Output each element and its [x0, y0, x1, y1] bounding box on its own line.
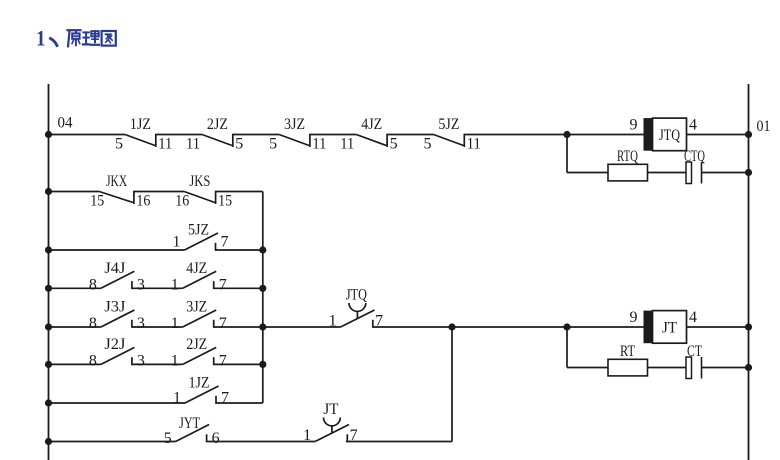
wire: left rail to JYT [49, 441, 176, 443]
wire: to RT [567, 367, 608, 369]
junction on left rail [45, 361, 52, 368]
junction on left rail [45, 285, 52, 292]
junction on right rail [745, 169, 752, 176]
svg-text:01: 01 [757, 118, 771, 135]
wire: left rail to 1JZ contact [49, 402, 186, 404]
junction to RT-CT branch [563, 323, 570, 330]
right rail (vertical bus) [748, 84, 750, 460]
svg-text:1: 1 [329, 313, 337, 330]
page title "1、原理图" [36, 26, 116, 51]
wire: J4J to 4JZ [132, 287, 183, 289]
wire: RT to CT [648, 367, 687, 369]
time-delay contact JT (pins 1-7) [303, 401, 358, 444]
svg-text:CTQ: CTQ [684, 148, 705, 165]
contact J3J (pins 8-3) [89, 299, 145, 332]
wire: left rail to 1JZ [49, 134, 126, 136]
svg-text:1: 1 [171, 352, 179, 369]
svg-text:3: 3 [137, 315, 145, 332]
svg-text:04: 04 [58, 115, 73, 132]
wire: 5JZ to RC junction [464, 134, 567, 136]
svg-text:3JZ: 3JZ [284, 116, 305, 133]
junction on mid bus [259, 323, 266, 330]
wire: JT coil to right rail [687, 326, 749, 328]
svg-text:11: 11 [467, 136, 481, 153]
relay coil JT (pins 9-4) [630, 309, 698, 343]
svg-text:5: 5 [115, 136, 123, 153]
svg-text:JT: JT [323, 401, 338, 418]
junction on left rail [45, 188, 52, 195]
svg-text:2JZ: 2JZ [186, 336, 207, 353]
junction on left rail [45, 246, 52, 253]
contact 3JZ (pins 5-11) [269, 116, 326, 153]
svg-text:6: 6 [212, 430, 220, 447]
svg-text:15: 15 [90, 193, 104, 210]
junction to RTQ-CTQ branch [563, 131, 570, 138]
svg-text:RT: RT [620, 343, 635, 360]
svg-text:8: 8 [89, 315, 97, 332]
svg-text:4: 4 [689, 309, 697, 326]
junction on mid bus [259, 361, 266, 368]
wire: 4JZ to 5JZ [387, 134, 433, 136]
contact 1JZ (pins 5-11) [115, 116, 172, 153]
wire: 3JZ to mid bus [214, 326, 263, 328]
svg-text:5: 5 [164, 430, 172, 447]
wire: JKS to mid bus [216, 191, 263, 193]
node 04 junction [45, 131, 52, 138]
wire: 3JZ to 4JZ [310, 134, 356, 136]
wire: JYT to JT contact [207, 441, 316, 443]
wire: RTQ to CTQ [648, 172, 687, 174]
svg-text:11: 11 [312, 136, 326, 153]
contact JYT (pins 5-6) [164, 415, 220, 447]
svg-text:5JZ: 5JZ [438, 116, 459, 133]
wire: drop to RT branch [566, 327, 568, 368]
svg-text:1: 1 [303, 427, 311, 444]
junction on mid bus [259, 285, 266, 292]
wire: left rail to J4J [49, 287, 101, 289]
wire: 2JZ to 3JZ [233, 134, 279, 136]
svg-text:J4J: J4J [104, 260, 125, 277]
wire: 1JZ to 2JZ [156, 134, 202, 136]
wire: to RTQ [567, 172, 608, 174]
junction on left rail [45, 438, 52, 445]
wire: JT contact to riser corner [346, 441, 452, 443]
svg-text:8: 8 [89, 276, 97, 293]
svg-text:JKS: JKS [189, 173, 210, 190]
mid bus (vertical) [262, 192, 264, 404]
svg-text:9: 9 [630, 117, 638, 134]
contact 2JZ (pins 1-7) [171, 336, 227, 369]
svg-text:JYT: JYT [179, 415, 200, 432]
svg-text:7: 7 [219, 352, 227, 369]
contact J2J (pins 8-3) [89, 336, 145, 369]
svg-text:1: 1 [171, 315, 179, 332]
wire: left rail to J3J [49, 326, 101, 328]
svg-text:5: 5 [390, 136, 398, 153]
junction on right rail [745, 364, 752, 371]
contact 3JZ (pins 1-7) [171, 299, 227, 332]
time-delay contact JTQ (pins 1-7) [329, 287, 384, 330]
relay coil JTQ (pins 9-4) [630, 117, 698, 151]
wire: JTQ contact to junction [373, 326, 452, 328]
wire: JTQ coil to right rail [687, 134, 749, 136]
svg-text:9: 9 [630, 309, 638, 326]
junction on left rail [45, 323, 52, 330]
svg-text:7: 7 [221, 234, 229, 251]
svg-text:7: 7 [219, 276, 227, 293]
svg-text:1: 1 [173, 390, 181, 407]
wire: CT to right rail [702, 367, 749, 369]
wire: junction to JTQ coil [567, 134, 644, 136]
wire: CTQ to right rail [702, 172, 749, 174]
contact J4J (pins 8-3) [89, 260, 145, 293]
junction on left rail [45, 399, 52, 406]
svg-text:3JZ: 3JZ [186, 299, 207, 316]
wire: JKX to JKS [134, 191, 184, 193]
left rail (vertical bus) [48, 84, 50, 460]
svg-text:4JZ: 4JZ [186, 260, 207, 277]
svg-text:JKX: JKX [106, 173, 127, 190]
junction on right rail (01) [745, 131, 752, 138]
junction on right rail [745, 323, 752, 330]
svg-text:JTQ: JTQ [346, 287, 367, 304]
svg-text:1JZ: 1JZ [130, 116, 151, 133]
svg-text:11: 11 [186, 136, 200, 153]
svg-text:2JZ: 2JZ [207, 116, 228, 133]
svg-text:4JZ: 4JZ [361, 116, 382, 133]
contact 2JZ (pins 11-5) [186, 116, 243, 153]
wire: drop to RTQ branch [566, 135, 568, 173]
svg-text:1: 1 [173, 234, 181, 251]
svg-text:8: 8 [89, 352, 97, 369]
svg-text:4: 4 [689, 117, 697, 134]
wire: junction to JT coil [567, 326, 644, 328]
svg-text:1JZ: 1JZ [189, 375, 210, 392]
wire: left rail to 5JZ contact [49, 249, 185, 251]
wire: junction to junction [452, 326, 567, 328]
wire: mid bus to JTQ contact [263, 326, 341, 328]
junction to bottom row riser [448, 323, 455, 330]
wire: left rail to J2J [49, 363, 101, 365]
wire: 1JZ to mid bus corner [216, 402, 263, 404]
svg-text:7: 7 [221, 390, 229, 407]
svg-text:CT: CT [687, 343, 702, 360]
svg-text:JT: JT [662, 320, 677, 337]
wire: J3J to 3JZ [132, 326, 183, 328]
svg-text:J3J: J3J [104, 299, 125, 316]
wire: J2J to 2JZ [132, 363, 183, 365]
svg-text:5: 5 [424, 136, 432, 153]
contact 4JZ (pins 1-7) [171, 260, 227, 293]
svg-text:3: 3 [137, 276, 145, 293]
svg-text:RTQ: RTQ [617, 148, 638, 165]
svg-text:15: 15 [218, 193, 232, 210]
svg-text:16: 16 [136, 193, 150, 210]
contact JKS (pins 16-15) [175, 173, 232, 210]
contact 4JZ (pins 11-5) [340, 116, 397, 153]
capacitor CT [686, 343, 702, 379]
resistor RT [608, 343, 648, 376]
junction on mid bus [259, 246, 266, 253]
svg-text:7: 7 [219, 315, 227, 332]
svg-text:11: 11 [340, 136, 354, 153]
svg-text:5: 5 [235, 136, 243, 153]
svg-text:1: 1 [36, 26, 46, 51]
wire: left rail to JKX [49, 191, 100, 193]
resistor RTQ [608, 148, 648, 181]
svg-text:16: 16 [175, 193, 189, 210]
svg-text:3: 3 [137, 352, 145, 369]
svg-text:1: 1 [171, 276, 179, 293]
wire: 4JZ to mid bus [214, 287, 263, 289]
wire: 2JZ to mid bus [214, 363, 263, 365]
wire: 5JZ to mid bus [216, 249, 263, 251]
svg-text:J2J: J2J [104, 336, 125, 353]
svg-text:11: 11 [158, 136, 172, 153]
contact 1JZ (pins 1-7) [173, 375, 229, 407]
contact 5JZ (pins 1-7) [173, 222, 229, 251]
svg-text:5JZ: 5JZ [188, 222, 209, 239]
capacitor CTQ [684, 148, 705, 184]
svg-text:5: 5 [269, 136, 277, 153]
svg-text:JTQ: JTQ [659, 127, 680, 144]
riser: bottom row up to JT coil row [451, 327, 453, 442]
contact 5JZ (pins 5-11) [424, 116, 481, 153]
contact JKX (pins 15-16) [90, 173, 150, 210]
